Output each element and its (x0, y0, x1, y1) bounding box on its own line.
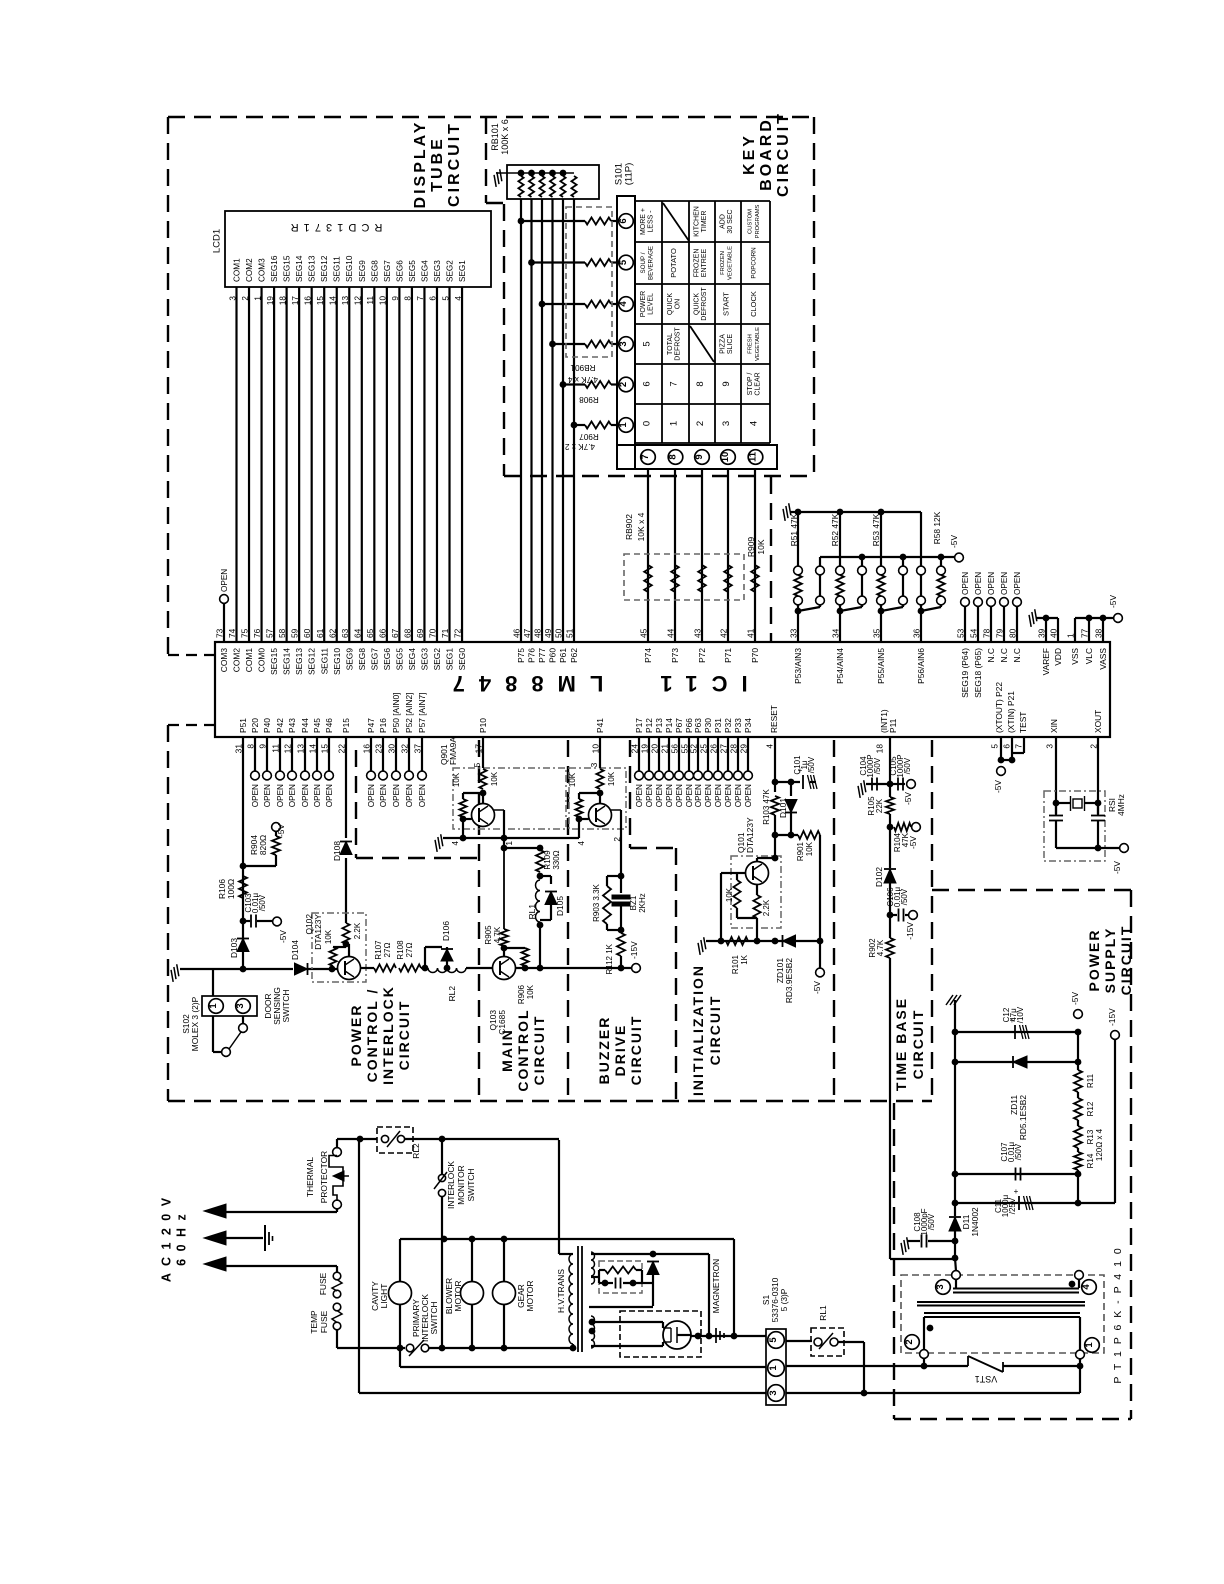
svg-text:SEG19 (P64): SEG19 (P64) (960, 648, 970, 698)
svg-text:P20: P20 (250, 718, 260, 733)
svg-text:P42: P42 (275, 718, 285, 733)
svg-text:SEG15: SEG15 (269, 648, 279, 675)
svg-text:47: 47 (522, 628, 532, 638)
svg-text:VASS: VASS (1098, 648, 1108, 670)
svg-text:10K: 10K (526, 984, 535, 999)
svg-text:P32: P32 (723, 718, 733, 733)
svg-text:SEG9: SEG9 (358, 260, 367, 282)
svg-text:5: 5 (618, 259, 629, 265)
svg-text:R108: R108 (396, 940, 405, 960)
svg-text:OPEN: OPEN (714, 784, 723, 807)
svg-text:OPEN: OPEN (288, 784, 297, 807)
svg-text:48: 48 (533, 628, 543, 638)
svg-text:59: 59 (290, 628, 300, 638)
svg-text:DTA123Y: DTA123Y (313, 914, 323, 950)
svg-text:P57 [AIN7]: P57 [AIN7] (417, 692, 427, 733)
svg-text:CIRCUIT: CIRCUIT (531, 1015, 547, 1086)
svg-text:SEG0: SEG0 (457, 648, 467, 671)
svg-text:P55/AIN5: P55/AIN5 (876, 648, 886, 684)
svg-text:P52 [AIN2]: P52 [AIN2] (404, 692, 414, 733)
svg-text:OPEN: OPEN (405, 784, 414, 807)
svg-text:-5V: -5V (812, 981, 822, 994)
svg-text:P40: P40 (262, 718, 272, 733)
svg-text:SLICE: SLICE (727, 334, 734, 355)
svg-text:FMA9A: FMA9A (448, 737, 458, 765)
svg-text:DISPLAY: DISPLAY (412, 120, 429, 209)
svg-text:R12: R12 (1086, 1101, 1095, 1116)
svg-text:69: 69 (415, 628, 425, 638)
svg-text:62: 62 (327, 628, 337, 638)
svg-text:XIN: XIN (1049, 719, 1059, 733)
svg-text:SEG8: SEG8 (357, 648, 367, 671)
svg-text:0: 0 (642, 421, 653, 426)
svg-text:RL1: RL1 (818, 1305, 828, 1321)
svg-text:COM1: COM1 (232, 258, 241, 282)
svg-text:9: 9 (694, 454, 705, 459)
svg-text:P62: P62 (569, 648, 579, 663)
svg-text:IC11: IC11 (646, 671, 747, 696)
svg-text:TEST: TEST (1018, 712, 1028, 733)
svg-text:76: 76 (252, 628, 262, 638)
svg-text:P70: P70 (750, 648, 760, 663)
svg-text:4.7K x 2: 4.7K x 2 (565, 442, 595, 451)
svg-text:P77: P77 (537, 648, 547, 663)
svg-text:POWER: POWER (1086, 929, 1102, 992)
svg-text:OPEN: OPEN (645, 784, 654, 807)
svg-text:2KHz: 2KHz (638, 893, 647, 913)
svg-text:SEG8: SEG8 (370, 260, 379, 282)
svg-text:(XTOUT) P22: (XTOUT) P22 (994, 682, 1004, 733)
svg-text:71: 71 (440, 628, 450, 638)
svg-text:5: 5 (990, 744, 1000, 749)
svg-text:P41: P41 (595, 718, 605, 733)
svg-text:P50 [AIN0]: P50 [AIN0] (391, 692, 401, 733)
svg-text:/10V: /10V (1016, 1006, 1025, 1023)
svg-text:P45: P45 (312, 718, 322, 733)
svg-text:P44: P44 (300, 718, 310, 733)
svg-text:58: 58 (277, 628, 287, 638)
svg-text:10K: 10K (725, 887, 734, 902)
svg-text:MONITOR: MONITOR (456, 1165, 466, 1204)
svg-text:P15: P15 (341, 718, 351, 733)
svg-text:SEG10: SEG10 (332, 648, 342, 675)
svg-text:MORE +: MORE + (640, 208, 647, 235)
svg-text:27Ω: 27Ω (383, 943, 392, 958)
svg-text:5: 5 (642, 341, 653, 346)
svg-text:1N4002: 1N4002 (970, 1207, 980, 1237)
svg-text:SEG14: SEG14 (282, 648, 292, 675)
svg-text:FUSE: FUSE (319, 1310, 329, 1333)
svg-text:R107: R107 (374, 940, 383, 960)
svg-text:60: 60 (302, 628, 312, 638)
svg-text:75: 75 (240, 628, 250, 638)
svg-text:OPEN: OPEN (251, 784, 260, 807)
svg-text:SEG6: SEG6 (395, 260, 404, 282)
svg-text:SEG16: SEG16 (270, 255, 279, 282)
svg-text:43: 43 (693, 628, 703, 638)
svg-text:SEG1: SEG1 (445, 648, 455, 671)
svg-text:FROZEN: FROZEN (720, 251, 726, 275)
svg-text:R903 3.3K: R903 3.3K (592, 883, 601, 921)
svg-text:10: 10 (720, 452, 731, 463)
svg-text:LM8847: LM8847 (439, 671, 604, 696)
svg-text:820Ω: 820Ω (258, 835, 268, 855)
svg-text:64: 64 (352, 628, 362, 638)
svg-text:H.V.TRANS: H.V.TRANS (556, 1269, 566, 1313)
svg-text:2.2K: 2.2K (353, 922, 362, 939)
svg-text:50: 50 (554, 628, 564, 638)
svg-text:D101: D101 (778, 798, 788, 818)
svg-text:P54/AIN4: P54/AIN4 (835, 648, 845, 684)
svg-text:ADD: ADD (720, 214, 727, 229)
svg-text:R53 47K: R53 47K (871, 513, 881, 546)
svg-text:OPEN: OPEN (724, 784, 733, 807)
svg-text:(11P): (11P) (623, 163, 634, 186)
svg-text:10K: 10K (490, 771, 499, 786)
svg-text:-5V: -5V (1070, 992, 1080, 1005)
svg-text:4.7K: 4.7K (493, 926, 502, 943)
svg-text:SEG15: SEG15 (283, 255, 292, 282)
svg-text:3: 3 (768, 1390, 779, 1395)
svg-text:P16: P16 (378, 718, 388, 733)
svg-text:THERMAL: THERMAL (305, 1157, 315, 1197)
svg-text:RB901: RB901 (570, 363, 595, 372)
svg-text:41: 41 (746, 628, 756, 638)
svg-text:-5V: -5V (276, 824, 286, 837)
svg-text:7: 7 (640, 454, 651, 459)
svg-text:70: 70 (428, 628, 438, 638)
svg-text:330Ω: 330Ω (552, 850, 561, 869)
svg-text:SEG13: SEG13 (308, 255, 317, 282)
svg-text:CONTROL: CONTROL (515, 1008, 531, 1091)
svg-text:VLC: VLC (1084, 648, 1094, 664)
svg-text:10K: 10K (805, 841, 814, 856)
svg-text:R906: R906 (517, 984, 526, 1004)
svg-text:INITIALIZATION: INITIALIZATION (690, 964, 706, 1096)
svg-text:SEG18 (P65): SEG18 (P65) (973, 648, 983, 698)
svg-text:R907: R907 (579, 432, 599, 441)
svg-text:OPEN: OPEN (367, 784, 376, 807)
svg-text:R103 47K: R103 47K (762, 789, 771, 825)
svg-text:1K: 1K (740, 954, 749, 964)
svg-text:RL1: RL1 (527, 904, 537, 920)
svg-text:INTERLOCK: INTERLOCK (380, 985, 396, 1085)
svg-text:C1685: C1685 (497, 1010, 507, 1035)
svg-text:6: 6 (618, 218, 629, 223)
svg-text:OPEN: OPEN (263, 784, 272, 807)
svg-text:P47: P47 (366, 718, 376, 733)
svg-text:R52 47K: R52 47K (830, 513, 840, 546)
svg-text:VAREF: VAREF (1041, 648, 1051, 675)
svg-text:1: 1 (504, 841, 514, 846)
svg-text:BZ1: BZ1 (629, 895, 638, 910)
svg-text:QUICK: QUICK (694, 293, 701, 316)
svg-text:INTERLOCK: INTERLOCK (446, 1161, 456, 1209)
svg-text:6 0 H z: 6 0 H z (175, 1212, 189, 1266)
svg-text:66: 66 (377, 628, 387, 638)
svg-text:XOUT: XOUT (1093, 710, 1103, 733)
svg-text:R112 1K: R112 1K (605, 943, 614, 974)
svg-text:TOTAL: TOTAL (667, 333, 674, 355)
svg-text:DTA123Y: DTA123Y (745, 817, 755, 853)
svg-text:63: 63 (340, 628, 350, 638)
svg-text:FROZEN: FROZEN (694, 249, 701, 278)
svg-text:1: 1 (208, 1003, 219, 1009)
svg-text:OPEN: OPEN (418, 784, 427, 807)
svg-text:/50V: /50V (1014, 1143, 1023, 1160)
svg-text:45: 45 (639, 628, 649, 638)
svg-text:67: 67 (390, 628, 400, 638)
svg-text:DEFROST: DEFROST (675, 327, 682, 361)
svg-text:TEMP: TEMP (309, 1310, 319, 1334)
svg-text:D106: D106 (441, 921, 451, 941)
svg-text:COM3: COM3 (219, 648, 229, 673)
svg-text:P31: P31 (713, 718, 723, 733)
svg-text:SWITCH: SWITCH (281, 989, 291, 1022)
svg-text:72: 72 (453, 628, 463, 638)
svg-text:5: 5 (472, 762, 482, 767)
svg-text:-15V: -15V (629, 941, 639, 959)
svg-text:CIRCUIT: CIRCUIT (446, 121, 463, 207)
svg-text:SEG4: SEG4 (407, 648, 417, 671)
svg-text:P11: P11 (888, 718, 898, 733)
svg-text:10K: 10K (452, 772, 461, 787)
svg-text:/50V: /50V (807, 756, 816, 773)
svg-text:R109: R109 (543, 850, 552, 870)
svg-text:3: 3 (935, 1284, 946, 1289)
svg-text:4: 4 (618, 301, 629, 307)
svg-text:OPEN: OPEN (694, 784, 703, 807)
svg-text:/50V: /50V (903, 757, 912, 774)
svg-text:D105: D105 (555, 896, 565, 916)
svg-text:P34: P34 (743, 718, 753, 733)
svg-text:VSS: VSS (1070, 648, 1080, 665)
svg-text:OPEN: OPEN (655, 784, 664, 807)
svg-text:CIRCUIT: CIRCUIT (775, 111, 792, 197)
svg-text:RB902: RB902 (624, 514, 634, 540)
svg-text:R905: R905 (484, 925, 493, 945)
svg-text:RL2: RL2 (447, 986, 457, 1002)
svg-text:P12: P12 (644, 718, 654, 733)
svg-text:KITCHEN: KITCHEN (694, 206, 701, 237)
svg-text:OPEN: OPEN (635, 784, 644, 807)
svg-text:P13: P13 (654, 718, 664, 733)
svg-text:P30: P30 (703, 718, 713, 733)
svg-text:BEVERAGE: BEVERAGE (647, 246, 654, 280)
svg-text:RD5.1ESB2: RD5.1ESB2 (1018, 1095, 1028, 1140)
svg-text:COM3: COM3 (258, 258, 267, 282)
svg-text:RD3.9ESB2: RD3.9ESB2 (784, 958, 794, 1003)
svg-text:D108: D108 (332, 841, 342, 861)
svg-text:P72: P72 (697, 648, 707, 663)
svg-text:POTATO: POTATO (669, 248, 678, 278)
svg-text:68: 68 (402, 628, 412, 638)
svg-text:3: 3 (589, 762, 599, 767)
svg-text:R909: R909 (746, 537, 756, 558)
svg-text:CONTROL /: CONTROL / (364, 988, 380, 1083)
svg-text:CLEAR: CLEAR (755, 372, 762, 395)
svg-text:/25V: /25V (1008, 1197, 1017, 1214)
svg-text:SEG7: SEG7 (383, 260, 392, 282)
svg-text:3: 3 (1045, 744, 1055, 749)
svg-text:7: 7 (1014, 744, 1024, 749)
svg-text:-5V: -5V (949, 535, 959, 548)
svg-text:3: 3 (618, 341, 629, 346)
svg-text:73: 73 (215, 628, 225, 638)
svg-text:P74: P74 (643, 648, 653, 663)
svg-text:CIRCUIT: CIRCUIT (910, 1009, 926, 1080)
svg-text:5: 5 (768, 1337, 779, 1343)
svg-text:100K x 6: 100K x 6 (500, 119, 510, 155)
svg-text:DEFROST: DEFROST (701, 287, 708, 321)
svg-text:3: 3 (235, 1003, 246, 1008)
svg-text:/50V: /50V (900, 888, 909, 905)
svg-text:SEG6: SEG6 (382, 648, 392, 671)
svg-text:SEG2: SEG2 (445, 260, 454, 282)
svg-text:RL2: RL2 (411, 1143, 421, 1159)
svg-text:COM2: COM2 (245, 258, 254, 282)
svg-text:44: 44 (666, 628, 676, 638)
svg-text:P63: P63 (693, 718, 703, 733)
svg-text:4: 4 (749, 421, 760, 426)
svg-text:SEG5: SEG5 (394, 648, 404, 671)
svg-text:N.C: N.C (1012, 648, 1022, 662)
svg-text:2: 2 (618, 382, 629, 387)
svg-text:OPEN: OPEN (301, 784, 310, 807)
svg-text:18: 18 (875, 744, 885, 754)
svg-text:COM1: COM1 (244, 648, 254, 673)
svg-text:+: + (1014, 1187, 1019, 1196)
svg-text:P17: P17 (634, 718, 644, 733)
svg-text:RB101: RB101 (490, 123, 500, 151)
svg-text:4.7K x 4: 4.7K x 4 (568, 375, 598, 384)
svg-text:SEG12: SEG12 (320, 255, 329, 282)
svg-text:OPEN: OPEN (685, 784, 694, 807)
svg-text:VEGETABLE: VEGETABLE (728, 246, 734, 280)
svg-text:OPEN: OPEN (961, 572, 970, 595)
svg-text:51: 51 (565, 628, 575, 638)
svg-text:RESET: RESET (769, 705, 779, 733)
svg-text:SEG3: SEG3 (433, 260, 442, 282)
svg-text:7: 7 (669, 381, 680, 386)
svg-text:8: 8 (668, 454, 679, 459)
svg-text:POWER: POWER (640, 291, 647, 317)
svg-text:R C D 1 3 7 1 R: R C D 1 3 7 1 R (290, 221, 383, 233)
svg-text:3: 3 (721, 421, 732, 426)
svg-text:TIME BASE: TIME BASE (893, 997, 909, 1091)
svg-text:74: 74 (227, 628, 237, 638)
svg-text:D104: D104 (290, 940, 300, 960)
svg-text:-5V: -5V (908, 836, 918, 849)
svg-text:SEG4: SEG4 (420, 260, 429, 282)
svg-text:P10: P10 (478, 718, 488, 733)
svg-text:CLOCK: CLOCK (749, 291, 758, 317)
svg-text:PROTECTOR: PROTECTOR (319, 1151, 329, 1203)
svg-text:R14: R14 (1086, 1153, 1095, 1168)
svg-text:10K x 4: 10K x 4 (636, 512, 646, 541)
svg-text:100Ω: 100Ω (226, 879, 236, 899)
svg-text:CIRCUIT: CIRCUIT (707, 995, 723, 1066)
svg-text:POPCORN: POPCORN (751, 247, 758, 278)
svg-text:CIRCUIT: CIRCUIT (628, 1015, 644, 1086)
svg-text:SEG14: SEG14 (295, 255, 304, 282)
svg-text:SEG11: SEG11 (319, 648, 329, 675)
svg-text:4MHz: 4MHz (1116, 794, 1126, 816)
svg-text:P76: P76 (527, 648, 537, 663)
svg-text:30 SEC: 30 SEC (727, 209, 734, 233)
svg-text:SWITCH: SWITCH (429, 1301, 439, 1334)
svg-text:10K: 10K (324, 929, 333, 944)
svg-text:10K: 10K (568, 772, 577, 787)
svg-text:SEG9: SEG9 (344, 648, 354, 671)
svg-text:27Ω: 27Ω (405, 943, 414, 958)
svg-text:2: 2 (904, 1339, 915, 1344)
svg-text:OPEN: OPEN (325, 784, 334, 807)
svg-text:5 (3)P: 5 (3)P (779, 1288, 789, 1311)
svg-text:4: 4 (765, 744, 775, 749)
svg-text:10K: 10K (756, 539, 766, 554)
svg-text:P53/AIN3: P53/AIN3 (793, 648, 803, 684)
svg-text:ENTREE: ENTREE (701, 248, 708, 277)
svg-text:D103: D103 (229, 938, 239, 958)
svg-text:11: 11 (748, 451, 759, 462)
svg-text:P33: P33 (733, 718, 743, 733)
svg-text:R51 47K: R51 47K (789, 513, 799, 546)
svg-text:P60: P60 (548, 648, 558, 663)
svg-text:SWITCH: SWITCH (466, 1168, 476, 1201)
svg-text:P75: P75 (516, 648, 526, 663)
svg-text:SEG10: SEG10 (345, 255, 354, 282)
svg-text:P51: P51 (238, 718, 248, 733)
svg-text:61: 61 (315, 628, 325, 638)
svg-text:VEGETABLE: VEGETABLE (755, 327, 761, 361)
svg-text:4.7K: 4.7K (876, 939, 885, 956)
svg-text:SEG7: SEG7 (369, 648, 379, 671)
svg-text:OPEN: OPEN (665, 784, 674, 807)
svg-text:BOARD: BOARD (758, 117, 775, 191)
svg-text:1: 1 (669, 421, 680, 426)
svg-text:-15V: -15V (905, 922, 915, 940)
svg-text:SEG11: SEG11 (333, 256, 342, 282)
svg-text:1: 1 (1084, 1342, 1095, 1348)
svg-text:OPEN: OPEN (276, 784, 285, 807)
svg-text:OPEN: OPEN (744, 784, 753, 807)
svg-text:TUBE: TUBE (429, 136, 446, 192)
svg-text:P73: P73 (670, 648, 680, 663)
svg-text:N.C: N.C (986, 648, 996, 662)
svg-text:46: 46 (512, 628, 522, 638)
svg-text:OPEN: OPEN (1000, 572, 1009, 595)
svg-text:OPEN: OPEN (379, 784, 388, 807)
svg-text:START: START (722, 292, 731, 316)
svg-text:COM2: COM2 (232, 648, 242, 673)
svg-text:9: 9 (721, 381, 732, 386)
svg-text:/50V: /50V (927, 1213, 936, 1230)
svg-text:8: 8 (695, 381, 706, 386)
svg-text:CIRCUIT: CIRCUIT (1118, 925, 1134, 996)
svg-text:OPEN: OPEN (675, 784, 684, 807)
svg-text:P46: P46 (324, 718, 334, 733)
svg-text:CUSTOM: CUSTOM (748, 209, 754, 234)
svg-text:OPEN: OPEN (974, 572, 983, 595)
svg-text:VST1: VST1 (975, 1374, 998, 1384)
svg-text:VDD: VDD (1053, 648, 1063, 666)
svg-text:OPEN: OPEN (313, 784, 322, 807)
svg-text:COM0: COM0 (257, 648, 267, 673)
svg-text:120Ω x 4: 120Ω x 4 (1095, 1128, 1104, 1161)
svg-text:/50V: /50V (873, 757, 882, 774)
svg-text:/50V: /50V (258, 894, 267, 911)
